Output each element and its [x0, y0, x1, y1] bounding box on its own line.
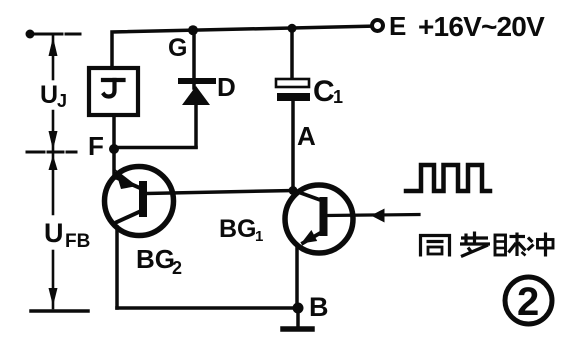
svg-text:U: U: [44, 218, 64, 248]
svg-text:A: A: [297, 121, 316, 151]
wire capacitor to node A junction: [291, 101, 295, 190]
node G: [188, 25, 198, 35]
wire BG1 emitter to B: [295, 247, 299, 308]
dimension dot top-left: [26, 30, 35, 39]
svg-text:FB: FB: [65, 231, 90, 252]
dimension vertical line middle: [52, 111, 55, 214]
label J: [103, 80, 124, 97]
svg-text:2: 2: [517, 280, 539, 324]
dimension bottom line: [31, 309, 88, 313]
node F: [109, 144, 119, 154]
dimension top dashed line: [30, 33, 80, 36]
dimension vertical line lower: [52, 251, 55, 308]
svg-text:U: U: [40, 81, 58, 109]
svg-text:1: 1: [255, 228, 263, 245]
arrow down UFB bottom: [49, 288, 58, 306]
node A junction dot: [289, 186, 298, 195]
wire F to BG2: [112, 149, 116, 178]
wire sync input: [327, 215, 419, 216]
svg-text:BG: BG: [136, 244, 175, 274]
figure number circled 2: [505, 277, 552, 324]
label sync pulse (hand drawn CJK 同步脉冲): [419, 232, 553, 257]
transistor BG2: [105, 167, 174, 236]
arrow down UJ bottom: [49, 131, 58, 150]
svg-text:F: F: [88, 131, 104, 161]
wire bottom rail: [117, 306, 298, 310]
node top of capacitor branch: [288, 24, 297, 33]
label BG1: [219, 215, 263, 245]
arrow up UJ top: [49, 37, 58, 56]
sync arrowhead: [371, 209, 385, 223]
dimension vertical line upper: [52, 34, 55, 79]
wire BG2 emitter down: [115, 227, 119, 308]
label BG2: [136, 244, 182, 278]
wire G to diode: [192, 30, 196, 89]
node B: [293, 303, 304, 314]
relay J box: [89, 68, 138, 115]
label UJ: [40, 81, 67, 111]
transistor BG1: [285, 185, 353, 253]
char CHONG: [528, 233, 554, 257]
svg-text:C: C: [313, 75, 335, 108]
label C1: [313, 75, 343, 108]
svg-text:G: G: [168, 34, 187, 62]
svg-text:J: J: [57, 91, 67, 111]
capacitor C1: [276, 79, 310, 101]
arrow up UFB top: [49, 155, 58, 170]
dimension cross dashed line: [27, 151, 79, 154]
wire top rail: [112, 26, 371, 68]
svg-text:+16V~20V: +16V~20V: [418, 11, 545, 42]
wire BG2 base to node A junction: [147, 191, 293, 194]
char BU: [460, 232, 490, 257]
svg-text:1: 1: [333, 87, 343, 107]
char MAI: [495, 233, 526, 257]
svg-text:2: 2: [172, 258, 182, 278]
svg-text:D: D: [217, 72, 236, 102]
svg-text:BG: BG: [219, 215, 257, 243]
wire diode to F: [114, 146, 196, 150]
wire rail to capacitor: [290, 28, 294, 80]
ground: [283, 308, 312, 329]
wire J to F: [112, 115, 116, 149]
sync square wave symbol: [406, 165, 490, 191]
svg-text:B: B: [309, 292, 329, 322]
svg-text:E: E: [389, 11, 406, 41]
terminal E open circle: [372, 20, 383, 31]
char TONG: [419, 234, 451, 257]
label UFB: [44, 218, 90, 252]
diode D: [181, 81, 213, 147]
